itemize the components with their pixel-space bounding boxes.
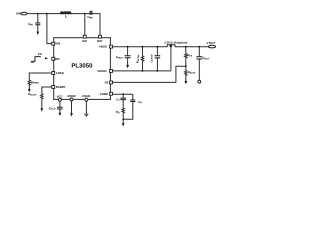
svg-text:VIN: VIN xyxy=(16,12,21,16)
svg-text:CBUS: CBUS xyxy=(116,55,123,59)
svg-text:VOUT: VOUT xyxy=(207,41,216,45)
svg-text:CVCC: CVCC xyxy=(49,106,56,110)
svg-text:FREQ: FREQ xyxy=(56,71,65,75)
svg-text:BST: BST xyxy=(97,39,103,43)
svg-text:RDPDM: RDPDM xyxy=(136,55,140,63)
svg-text:CP: CP xyxy=(138,100,142,104)
svg-text:VBUS: VBUS xyxy=(99,45,107,49)
svg-text:EN: EN xyxy=(38,52,42,56)
svg-text:FB: FB xyxy=(105,81,109,85)
svg-text:EN: EN xyxy=(55,57,59,61)
svg-text:CZ: CZ xyxy=(116,97,120,101)
svg-text:SW: SW xyxy=(82,39,87,43)
svg-text:RSLIMIT: RSLIMIT xyxy=(28,93,37,96)
svg-text:COMP: COMP xyxy=(100,92,109,96)
svg-text:DP/DM: DP/DM xyxy=(97,69,107,73)
svg-text:RZ: RZ xyxy=(116,110,120,114)
svg-text:VIN: VIN xyxy=(55,42,60,46)
svg-text:MODE: MODE xyxy=(67,94,76,98)
svg-text:PGND: PGND xyxy=(82,94,90,98)
svg-text:CDPDM: CDPDM xyxy=(149,54,153,62)
svg-text:CIN: CIN xyxy=(28,22,33,26)
svg-text:VCC: VCC xyxy=(57,94,63,98)
svg-text:CBS: CBS xyxy=(87,15,93,19)
svg-text:SLIMIT: SLIMIT xyxy=(56,85,66,89)
svg-text:RFREQ: RFREQ xyxy=(31,80,39,84)
svg-text:RBLNK: RBLNK xyxy=(188,70,196,74)
svg-text:L: L xyxy=(65,15,68,19)
svg-text:5.0V/2.4A(option): 5.0V/2.4A(option) xyxy=(164,40,187,44)
svg-text:PL3050: PL3050 xyxy=(71,63,93,70)
svg-text:RFB: RFB xyxy=(187,53,192,57)
svg-text:COUT: COUT xyxy=(203,56,210,60)
